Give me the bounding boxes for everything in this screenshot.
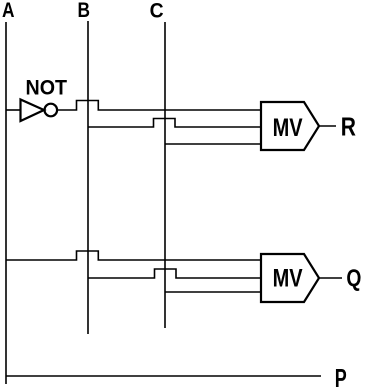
svg-text:Q: Q xyxy=(346,265,361,292)
svg-text:MV: MV xyxy=(273,114,303,142)
svg-text:B: B xyxy=(78,0,91,22)
svg-text:P: P xyxy=(335,365,347,390)
svg-text:NOT: NOT xyxy=(26,76,68,99)
svg-text:R: R xyxy=(341,113,356,141)
svg-text:A: A xyxy=(2,0,15,22)
svg-text:MV: MV xyxy=(273,265,303,293)
svg-text:C: C xyxy=(150,0,164,22)
